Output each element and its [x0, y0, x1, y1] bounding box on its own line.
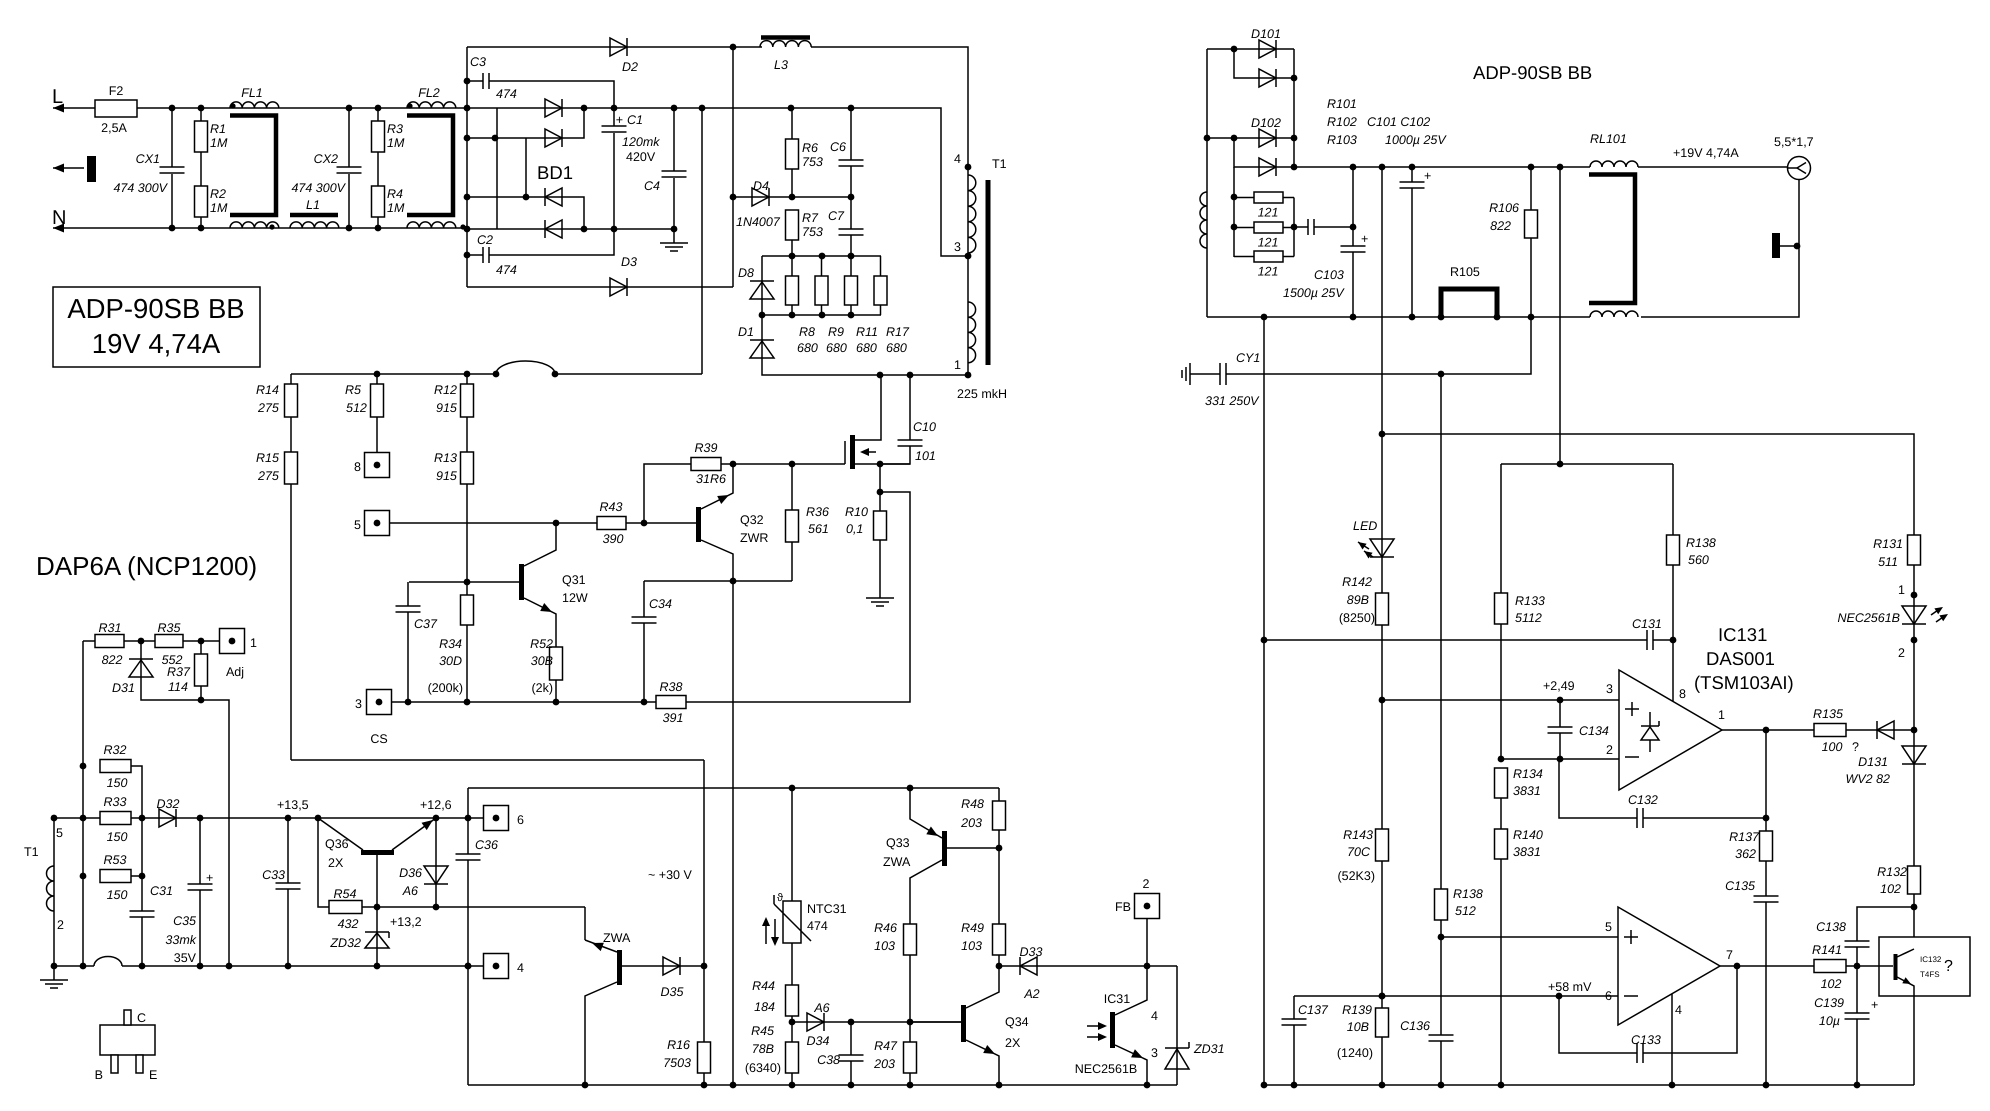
wire D101 top: [1207, 48, 1294, 50]
wire clamp bottom bus: [762, 314, 881, 316]
svg-text:10µ: 10µ: [1819, 1014, 1840, 1028]
svg-text:Adj: Adj: [226, 665, 244, 679]
svg-text:T1: T1: [992, 157, 1007, 171]
svg-text:C136: C136: [1400, 1019, 1430, 1033]
svg-text:?: ?: [1944, 958, 1953, 975]
resistor R2: [195, 186, 208, 217]
wire R48 top: [998, 788, 1000, 801]
svg-text:C101 C102: C101 C102: [1367, 115, 1430, 129]
wire D3 line: [467, 286, 733, 288]
svg-text:103: 103: [961, 939, 982, 953]
svg-text:E: E: [149, 1068, 157, 1082]
transformer T1 primary lower: [968, 302, 976, 363]
resistor R7: [786, 210, 799, 240]
wire adj return: [201, 700, 229, 966]
svg-text:R6: R6: [802, 141, 818, 155]
wire bridge left side: [496, 108, 498, 229]
svg-text:D32: D32: [157, 797, 180, 811]
wire R138b top: [1440, 374, 1442, 889]
svg-text:D34: D34: [807, 1034, 830, 1048]
wire clamp top bus: [762, 255, 881, 257]
svg-text:100: 100: [1822, 740, 1843, 754]
svg-text:3: 3: [355, 697, 362, 711]
resistor R43: [597, 517, 626, 530]
diode BD1 bot2: [545, 220, 562, 238]
wire LED branch: [1381, 434, 1383, 593]
svg-text:R131: R131: [1873, 537, 1903, 551]
wire pin6 link: [468, 817, 484, 819]
wire T1 aux winding line: [53, 818, 55, 966]
NTC arrow down: [771, 919, 779, 946]
wire IC132 collector: [1897, 949, 1914, 957]
svg-text:R32: R32: [104, 743, 127, 757]
svg-text:A2: A2: [1023, 987, 1039, 1001]
wire R131 feed: [1382, 434, 1914, 535]
wire R12 R13 chain: [466, 374, 468, 582]
capacitor C34: [632, 617, 657, 623]
resistor R134: [1495, 768, 1508, 798]
svg-text:(1240): (1240): [1337, 1046, 1373, 1060]
junction dot pin4 node: [465, 963, 472, 970]
svg-text:C33: C33: [262, 868, 285, 882]
wire Q34 collector: [966, 966, 999, 1008]
svg-text:102: 102: [1821, 977, 1842, 991]
svg-text:822: 822: [1490, 219, 1511, 233]
junction dots D4 node: [789, 194, 855, 201]
svg-text:NTC31: NTC31: [807, 902, 847, 916]
diode D2: [610, 38, 627, 56]
capacitor CX1: [160, 167, 185, 173]
svg-text:C10: C10: [913, 420, 936, 434]
junction dots CX1/R1 top: [169, 105, 205, 112]
capacitor C36: [456, 854, 481, 860]
wire Q31 base: [409, 581, 519, 583]
svg-text:420V: 420V: [626, 150, 656, 164]
wire IC31 collector: [1115, 966, 1147, 1015]
wire gnd long drop: [1263, 317, 1265, 1085]
svg-text:IC131: IC131: [1718, 624, 1767, 645]
svg-text:+: +: [206, 871, 213, 885]
svg-text:C138: C138: [1816, 920, 1846, 934]
svg-text:R9: R9: [828, 325, 844, 339]
wire R138a branch: [1672, 464, 1674, 535]
wire +30V feed: [291, 759, 704, 761]
wire C132 fb: [1559, 759, 1637, 818]
op-amp U1B minus sign: [1624, 995, 1638, 997]
junction dots bridge: [464, 105, 706, 233]
wire C137 branch: [1293, 996, 1295, 1019]
svg-text:3831: 3831: [1513, 845, 1541, 859]
wire C131 out: [1653, 639, 1673, 641]
resistor 121 row 1: [1254, 192, 1283, 203]
svg-text:680: 680: [826, 341, 847, 355]
svg-text:C36: C36: [475, 838, 498, 852]
wire opamp2 out: [1720, 965, 1814, 967]
junction dot C2 left: [464, 252, 471, 259]
wire row3 right: [562, 197, 584, 229]
wire ground stem: [673, 229, 675, 243]
resistor R1: [195, 121, 208, 152]
svg-text:1: 1: [250, 636, 257, 650]
wire R132 bottom: [1913, 894, 1915, 950]
svg-text:R101: R101: [1327, 97, 1357, 111]
svg-text:RL101: RL101: [1590, 132, 1627, 146]
svg-text:121: 121: [1258, 236, 1279, 250]
svg-text:D4: D4: [753, 179, 769, 193]
svg-text:184: 184: [754, 1000, 775, 1014]
svg-text:C1: C1: [627, 113, 643, 127]
svg-text:1: 1: [954, 358, 961, 372]
diode D34: [807, 1013, 824, 1031]
wire D2 to L3: [733, 46, 762, 48]
wire R143 bottom: [1381, 861, 1383, 1008]
junction dot Q31 base: [464, 579, 471, 586]
junction dots HV rail: [788, 105, 855, 112]
svg-text:IC31: IC31: [1104, 992, 1130, 1006]
wire pin3 line: [1382, 699, 1619, 701]
junction dots +19V rail: [1350, 164, 1564, 171]
L1 core bar: [290, 213, 338, 218]
junction dots aux bottom: [51, 963, 472, 970]
resistor R3: [372, 121, 385, 152]
resistor R106: [1525, 210, 1538, 238]
junction dots D101: [1231, 46, 1298, 82]
wire CX2 lower: [348, 174, 350, 228]
junction dots gnd drop: [1261, 637, 1268, 1089]
capacitor C31: [130, 911, 155, 917]
wire R46 bottom: [909, 955, 911, 1022]
svg-text:3: 3: [1151, 1046, 1158, 1060]
wire pin8 lead: [1672, 640, 1674, 701]
svg-text:121: 121: [1258, 206, 1279, 220]
svg-text:3831: 3831: [1513, 784, 1541, 798]
svg-text:D35: D35: [661, 985, 684, 999]
svg-text:+: +: [616, 113, 623, 127]
svg-text:33mk: 33mk: [165, 933, 196, 947]
wire mosfet source: [854, 463, 910, 465]
resistor R48: [993, 801, 1006, 830]
svg-text:(8250): (8250): [1339, 611, 1375, 625]
svg-text:1: 1: [1898, 583, 1905, 597]
diode D131: [1902, 746, 1926, 764]
wire fb mid rail: [1264, 639, 1647, 641]
svg-text:R39: R39: [695, 441, 718, 455]
junction dots gate line: [730, 461, 796, 468]
svg-text:474: 474: [807, 919, 828, 933]
wire bank lead bottom 3: [850, 305, 852, 315]
wire R31 line: [83, 640, 95, 642]
wire bank lead bottom 1: [791, 305, 793, 315]
svg-text:D2: D2: [622, 60, 638, 74]
wire R137 top: [1765, 818, 1767, 831]
wire C34 lower: [643, 623, 645, 702]
svg-text:78B: 78B: [752, 1042, 774, 1056]
wire drive line: [390, 522, 597, 524]
capacitor C37: [396, 606, 421, 612]
svg-text:391: 391: [663, 711, 684, 725]
junction dots CX1/R2 bottom: [169, 225, 205, 232]
wire IC132 emitter: [1897, 977, 1914, 1085]
svg-text:Q34: Q34: [1005, 1015, 1029, 1029]
led opto NEC2561B: [1902, 606, 1926, 624]
svg-text:C37: C37: [414, 617, 438, 631]
pin 6 DAP6A: [484, 806, 509, 831]
svg-text:L1: L1: [306, 198, 320, 212]
wire bridge bottom rail: [467, 228, 674, 230]
svg-text:915: 915: [436, 469, 457, 483]
svg-text:(2k): (2k): [531, 681, 553, 695]
svg-text:2,5A: 2,5A: [101, 121, 127, 135]
wire C133 fb: [1559, 996, 1637, 1053]
wire bottom rail left section: [468, 1084, 1177, 1086]
wire row2 up: [562, 108, 584, 138]
junction dot D2 out: [730, 44, 737, 51]
wire D4 line: [733, 196, 851, 198]
resistor R38: [656, 696, 686, 709]
svg-text:ZWR: ZWR: [740, 531, 768, 545]
wire R47 top: [909, 1022, 911, 1042]
wire L3 to T1 pin4: [811, 47, 968, 167]
wire FB drop: [1146, 918, 1148, 966]
svg-text:1: 1: [1718, 708, 1725, 722]
wire R106 bottom: [1530, 238, 1532, 317]
junction dot FB node: [1144, 963, 1151, 970]
svg-text:R135: R135: [1813, 707, 1843, 721]
svg-text:L: L: [52, 86, 63, 108]
inductor L1: [290, 222, 339, 228]
mosfet body arrow: [860, 448, 876, 456]
svg-text:C134: C134: [1579, 724, 1609, 738]
inductor L3: [760, 41, 811, 47]
wire C34 upper: [643, 581, 645, 617]
svg-text:R133: R133: [1515, 594, 1545, 608]
wire bank lead bottom 2: [821, 305, 823, 315]
wire D33 line: [999, 965, 1177, 967]
junction dot plug pin: [1794, 243, 1801, 250]
wire C37 upper: [407, 582, 409, 606]
arrow ZWA emitter: [592, 943, 604, 951]
svg-text:10B: 10B: [1347, 1020, 1369, 1034]
wire C35 lower: [199, 890, 201, 966]
wire pin4 drop: [1671, 994, 1673, 1085]
wire R34 bottom: [466, 625, 468, 702]
svg-text:70C: 70C: [1347, 845, 1371, 859]
wire R54 left: [318, 818, 329, 907]
svg-text:R43: R43: [600, 500, 623, 514]
diode D101a: [1259, 40, 1276, 58]
svg-text:4: 4: [1151, 1009, 1158, 1023]
wire sec winding line: [1206, 49, 1208, 317]
resistor R53: [100, 870, 131, 883]
svg-text:512: 512: [346, 401, 367, 415]
wire Q32 emitter: [701, 464, 733, 509]
wire C6 lower: [850, 166, 852, 197]
svg-text:8: 8: [1679, 687, 1686, 701]
junction dot R141 out: [1854, 963, 1861, 970]
capacitor C132: [1637, 808, 1643, 828]
wire ref to R143: [1381, 700, 1383, 829]
wire +13,2 line: [362, 906, 585, 908]
svg-text:362: 362: [1735, 847, 1756, 861]
FL2 winding dots: [407, 103, 465, 229]
wire R7 bottom: [791, 240, 793, 256]
svg-text:2: 2: [1606, 743, 1613, 757]
wire pin5 line: [1441, 936, 1619, 938]
resistor R52: [550, 647, 563, 680]
wire ZD31 line: [1176, 966, 1178, 1085]
svg-text:Q31: Q31: [562, 573, 586, 587]
svg-text:ADP-90SB BB: ADP-90SB BB: [67, 293, 244, 324]
resistor R31: [95, 635, 124, 648]
svg-text:R48: R48: [961, 797, 984, 811]
capacitor C103: [1341, 246, 1366, 252]
inductor FL1 bottom winding: [230, 222, 279, 228]
wire AC left vertical: [466, 47, 468, 287]
wire D8 D1 chain: [762, 256, 968, 375]
svg-text:C: C: [137, 1011, 146, 1025]
svg-text:1500µ 25V: 1500µ 25V: [1283, 286, 1345, 300]
arrow PE input: [53, 164, 64, 173]
T1 core bar: [986, 180, 991, 365]
capacitor C10: [898, 440, 923, 446]
junction dots sec bottom: [1261, 314, 1535, 321]
wire C136 bottom: [1440, 1041, 1442, 1085]
wire C137 lower: [1293, 1025, 1295, 1085]
svg-text:Q32: Q32: [740, 513, 764, 527]
svg-text:822: 822: [102, 653, 123, 667]
wire pin2 line: [1501, 758, 1619, 760]
svg-text:A6: A6: [813, 1001, 829, 1015]
svg-text:1M: 1M: [387, 201, 405, 215]
resistor R139: [1376, 1008, 1389, 1037]
wire snub cap left: [1294, 226, 1308, 228]
wire opamp1 out: [1722, 729, 1814, 731]
arrow L input: [53, 104, 64, 113]
resistor R135: [1814, 724, 1846, 737]
svg-text:432: 432: [338, 917, 359, 931]
svg-text:5: 5: [56, 826, 63, 840]
junction dots pin6 line: [1379, 993, 1563, 1000]
svg-text:+58 mV: +58 mV: [1548, 980, 1592, 994]
svg-text:+19V 4,74A: +19V 4,74A: [1673, 146, 1739, 160]
junction dots +12,6 rail: [789, 785, 914, 792]
wire C1 branch: [613, 108, 615, 126]
resistor R138b: [1435, 889, 1448, 920]
junction dot R10 node: [877, 489, 884, 496]
svg-text:150: 150: [107, 776, 128, 790]
opto ray head 2: [1939, 614, 1948, 621]
svg-text:D33: D33: [1020, 945, 1043, 959]
wire mosfet drain: [854, 375, 881, 440]
svg-text:+13,5: +13,5: [277, 798, 309, 812]
wire C7 lower: [850, 235, 852, 256]
svg-text:102: 102: [1880, 882, 1901, 896]
wire bank lead top 1: [791, 256, 793, 276]
wire aux ground stem: [53, 966, 55, 980]
junction dot C3 left: [464, 78, 471, 85]
svg-text:R53: R53: [104, 853, 127, 867]
wire C103 branch: [1352, 167, 1354, 246]
svg-text:R36: R36: [806, 505, 829, 519]
resistor R49: [993, 924, 1006, 955]
FL1 core: [230, 116, 276, 216]
wire R39 left: [644, 464, 691, 523]
wire D34 line: [792, 1021, 961, 1023]
svg-text:C131: C131: [1632, 617, 1662, 631]
svg-text:512: 512: [1455, 904, 1476, 918]
wire aux bottom rail b: [122, 965, 468, 967]
svg-text:474: 474: [496, 87, 517, 101]
wire Q36 base: [376, 855, 378, 907]
wire Q31 collector: [524, 523, 556, 566]
svg-text:Q36: Q36: [325, 837, 349, 851]
capacitor C101 C102: [1400, 182, 1425, 188]
wire CX2: [348, 108, 350, 167]
svg-text:R46: R46: [874, 921, 897, 935]
wire +19V rail: [1294, 166, 1590, 168]
svg-text:C38: C38: [817, 1053, 840, 1067]
ground R10: [866, 598, 894, 606]
wire R133 branch: [1500, 464, 1502, 593]
wire R1 R2 branch: [200, 108, 202, 228]
svg-text:114: 114: [168, 680, 188, 694]
diode D8: [750, 281, 774, 299]
wire C36 vert lower: [467, 860, 469, 1085]
svg-text:2: 2: [1143, 877, 1150, 891]
svg-text:R13: R13: [434, 451, 457, 465]
wire R16 bottom: [703, 1073, 705, 1085]
plug prong bar: [87, 156, 96, 182]
junction dot R44 R45: [789, 1019, 796, 1026]
svg-text:D1: D1: [738, 325, 754, 339]
wire R137 to C135: [1765, 861, 1767, 896]
wire Q32 long drop: [732, 581, 734, 1085]
package pin E: [136, 1055, 143, 1073]
wire R10 to ground: [879, 540, 881, 598]
wire Q33 collector: [910, 860, 942, 924]
svg-text:275: 275: [257, 401, 279, 415]
svg-text:R143: R143: [1343, 828, 1373, 842]
svg-text:Q33: Q33: [886, 836, 910, 850]
wire R16 top: [703, 966, 705, 1042]
diode D1: [750, 340, 774, 358]
svg-text:F2: F2: [109, 84, 124, 98]
capacitor C7: [839, 229, 864, 235]
led LED ray 1: [1358, 542, 1367, 550]
transistor ZWA base bar: [617, 950, 622, 985]
svg-text:C2: C2: [477, 233, 493, 247]
wire CX1 lower: [171, 174, 173, 228]
resistor R140: [1495, 829, 1508, 859]
resistor R36: [786, 510, 799, 542]
resistor R137: [1760, 831, 1773, 861]
svg-text:225 mkH: 225 mkH: [957, 387, 1007, 401]
svg-text:T4FS: T4FS: [1920, 970, 1940, 979]
wire R36 top: [791, 464, 793, 510]
resistor R8: [786, 276, 799, 305]
wire bank row 3 left: [1234, 256, 1254, 258]
wire R106 branch top: [1530, 167, 1532, 210]
svg-text:5: 5: [1605, 920, 1612, 934]
wire Q31 emitter: [524, 598, 556, 647]
svg-text:753: 753: [802, 225, 823, 239]
wire C31 branch: [141, 818, 143, 911]
wire Q32 collector: [701, 540, 733, 581]
wire bank row 3 right: [1283, 256, 1294, 258]
svg-text:C137: C137: [1298, 1003, 1329, 1017]
ground bridge negative: [660, 243, 688, 251]
wire aux bottom rail: [54, 965, 94, 967]
